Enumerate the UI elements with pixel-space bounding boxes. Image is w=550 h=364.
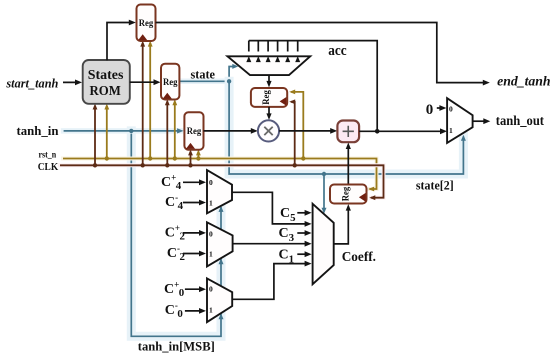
svg-text:rst_n: rst_n xyxy=(39,151,57,161)
svg-text:0: 0 xyxy=(449,104,453,113)
register Reg2 xyxy=(161,64,179,100)
svg-text:0: 0 xyxy=(426,102,434,118)
svg-text:Reg: Reg xyxy=(163,77,178,87)
svg-text:CLK: CLK xyxy=(38,162,59,173)
node C-0 xyxy=(165,301,206,321)
svg-text:0: 0 xyxy=(209,178,213,187)
node C3 xyxy=(279,226,312,244)
svg-text:States: States xyxy=(88,68,124,83)
wire: adder to output mux port 1 xyxy=(359,128,447,134)
svg-text:tanh_in: tanh_in xyxy=(17,123,60,138)
svg-text:1: 1 xyxy=(209,199,213,208)
svg-text:Coeff.: Coeff. xyxy=(342,250,376,265)
wire: Reg1 to end_tanh xyxy=(156,23,550,89)
wire: tanh_in[MSB] select net xyxy=(131,131,223,336)
wire: ROM to Reg2 xyxy=(130,79,161,85)
svg-text:1: 1 xyxy=(449,126,453,135)
svg-text:Reg: Reg xyxy=(139,18,154,28)
node constant 0 xyxy=(426,102,447,118)
wire: input tanh_in xyxy=(17,123,184,138)
wire: input start_tanh xyxy=(5,75,82,90)
wire: CLK rail xyxy=(38,41,384,201)
svg-text:Reg: Reg xyxy=(261,90,271,105)
wire: Reg3 to multiplier xyxy=(204,128,258,134)
svg-text:ROM: ROM xyxy=(90,84,121,99)
node C-4 xyxy=(165,193,206,213)
register Reg1 xyxy=(137,5,156,42)
adder U3 xyxy=(337,121,359,143)
wire: acc mux to Reg4 xyxy=(266,75,271,87)
node C+4 xyxy=(161,173,206,193)
mux acc (accumulator feedback mux) xyxy=(228,43,347,75)
svg-text:Reg: Reg xyxy=(340,186,350,201)
svg-text:start_tanh: start_tanh xyxy=(5,75,58,90)
register Reg3 xyxy=(184,112,203,149)
mux Coeff (coefficient select) xyxy=(313,204,376,284)
States ROM U1 xyxy=(83,60,130,104)
mux C (C0 pair select) xyxy=(207,278,232,322)
mux A (C4 pair select) xyxy=(207,170,232,213)
wire: mux A to Coeff xyxy=(232,192,312,227)
wire: mux B to Coeff xyxy=(233,241,312,247)
node C5 xyxy=(280,206,312,224)
svg-text:tanh_out: tanh_out xyxy=(496,113,545,128)
svg-text:state: state xyxy=(191,67,216,82)
wire: output tanh_out xyxy=(473,113,545,128)
mux output (tanh_out select) xyxy=(447,98,473,143)
wire: mux C to Coeff xyxy=(232,261,311,300)
node C-2 xyxy=(167,244,206,264)
wire: Reg4 to multiplier xyxy=(266,107,271,120)
mux B (C2 pair select) xyxy=(207,222,233,266)
wire: multiplier to adder xyxy=(279,128,337,134)
svg-text:1: 1 xyxy=(209,305,213,314)
svg-text:end_tanh: end_tanh xyxy=(497,73,550,88)
node C1 xyxy=(279,248,312,266)
multiplier U2 xyxy=(258,120,279,141)
svg-text:tanh_in[MSB]: tanh_in[MSB] xyxy=(138,339,215,354)
wire: accumulator feedback bus xyxy=(246,41,379,134)
svg-text:acc: acc xyxy=(328,43,347,59)
svg-text:Reg: Reg xyxy=(187,126,202,136)
node C+0 xyxy=(164,280,206,300)
wire: state net xyxy=(179,64,466,214)
wire: Coeff mux to Reg5 xyxy=(334,204,351,244)
svg-text:0: 0 xyxy=(209,285,213,294)
svg-text:1: 1 xyxy=(209,250,213,259)
register Reg4 (accumulator) xyxy=(251,88,287,107)
node C+2 xyxy=(165,223,206,243)
register Reg5 (coefficient) xyxy=(330,185,367,204)
svg-text:state[2]: state[2] xyxy=(416,178,454,193)
svg-text:0: 0 xyxy=(209,229,213,238)
wire: Reg5 to adder xyxy=(346,143,351,185)
wire: ROM to Reg1 xyxy=(107,20,136,61)
wire: rst_n rail xyxy=(39,41,377,192)
